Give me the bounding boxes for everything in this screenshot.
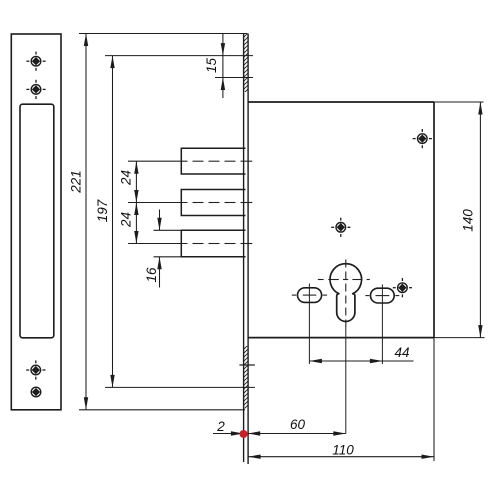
oval hole left: [298, 288, 322, 303]
oval left horizontal centerline: [292, 294, 327, 296]
dim line 221: [85, 34, 87, 410]
svg-text:24: 24: [118, 212, 133, 228]
screw hole D (faceplate bottom 2, no ticks): [31, 387, 41, 397]
arrow 44 left: [309, 359, 322, 363]
140 bottom extension: [434, 337, 485, 339]
latch 1 centerline: [128, 160, 252, 162]
faceplate outer rectangle: [11, 34, 61, 410]
dim line 44: [309, 360, 413, 362]
screw hole S2 (body top right): [413, 129, 432, 148]
strip hatch bottom segment: [240, 337, 252, 417]
svg-text:197: 197: [95, 199, 110, 222]
140 top extension (body top prolongation): [434, 101, 484, 103]
dim line 15: [222, 34, 224, 99]
197 bottom extension line: [105, 386, 255, 388]
221 bottom extension line: [79, 409, 245, 411]
top extension line (221/15): [79, 33, 247, 35]
arrow 24 bottom (down): [134, 231, 138, 244]
screw hole S3 (right of ovals): [393, 278, 412, 297]
cylinder centerline extension to 60 dim: [345, 327, 347, 434]
arrow 15 upper (down, from above): [221, 43, 225, 56]
dim line 16 lower: [159, 257, 161, 288]
arrow 15 lower (up, from below): [221, 78, 225, 91]
arrow 140 bottom (down): [478, 325, 482, 338]
197 top extension line: [105, 55, 253, 57]
dim line 24-24: [135, 161, 137, 243]
red reference dot: [240, 430, 248, 438]
strip tick line: [239, 364, 254, 366]
latch 3 bottom extension line: [154, 256, 182, 258]
arrow 24 middle pair: [134, 190, 138, 203]
cylinder vertical centerline: [345, 260, 347, 328]
screw hole C (faceplate bottom 1): [26, 360, 45, 379]
arrow 2 (right-pointing, from left): [231, 431, 244, 435]
svg-text:15: 15: [204, 58, 219, 74]
latch 1 outline: [181, 148, 245, 174]
arrow 197 top (up): [110, 56, 114, 69]
15 lower extension line: [215, 77, 253, 79]
oval right vertical extension line: [381, 284, 383, 364]
svg-text:24: 24: [118, 170, 133, 186]
arrow 140 top (up): [478, 102, 482, 115]
arrow 221 top (up): [84, 34, 88, 47]
svg-text:140: 140: [461, 209, 476, 232]
svg-text:2: 2: [216, 419, 225, 434]
faceplate edge strip right line: [247, 34, 249, 465]
arrow 60 right: [333, 431, 346, 435]
arrow 44 right: [370, 359, 383, 363]
dim line 197: [112, 56, 114, 388]
latch 2 centerline: [128, 202, 252, 204]
screw hole A (faceplate top 1): [26, 52, 45, 71]
svg-text:221: 221: [69, 170, 84, 194]
arrow 221 bottom (down): [84, 397, 88, 410]
screw hole B (faceplate top 2): [26, 80, 45, 99]
lock body bottom edge: [248, 337, 434, 339]
cylinder horizontal centerline: [318, 279, 370, 281]
screw hole S1 (body top middle): [331, 218, 350, 237]
latch 2 outline: [181, 190, 245, 216]
euro cylinder profile: [330, 264, 362, 322]
dim line 16 upper: [159, 210, 161, 231]
svg-text:60: 60: [290, 417, 306, 432]
arrow 110 left: [248, 455, 261, 459]
latch 3 centerline: [128, 243, 252, 245]
dim line 2 (left part): [213, 433, 243, 435]
svg-text:16: 16: [144, 267, 159, 283]
oval right horizontal centerline: [365, 295, 399, 297]
lock body top edge: [248, 101, 434, 103]
strip hatch top segment: [240, 25, 252, 101]
arrow 24 top (up): [134, 161, 138, 174]
dim line 110: [248, 456, 434, 458]
faceplate edge strip left line: [243, 34, 245, 463]
faceplate inner cutout: [20, 104, 54, 338]
latch 3 top extension line: [154, 229, 182, 231]
svg-text:44: 44: [394, 345, 409, 360]
lock body right edge: [433, 102, 435, 338]
arrow 197 bottom (down): [110, 375, 114, 388]
dim line 60: [248, 433, 346, 435]
arrow 110 right: [422, 455, 435, 459]
body right edge extension down (110 dim): [433, 338, 435, 461]
svg-text:110: 110: [332, 443, 354, 458]
oval left vertical extension line: [308, 284, 310, 365]
oval hole right: [371, 288, 395, 303]
latch 3 outline: [181, 230, 245, 256]
arrow 16 upper (down, from above): [157, 218, 161, 231]
dim line 140: [479, 102, 481, 338]
arrow 60 left: [248, 431, 261, 435]
arrow 16 lower (up, from below): [157, 257, 161, 270]
